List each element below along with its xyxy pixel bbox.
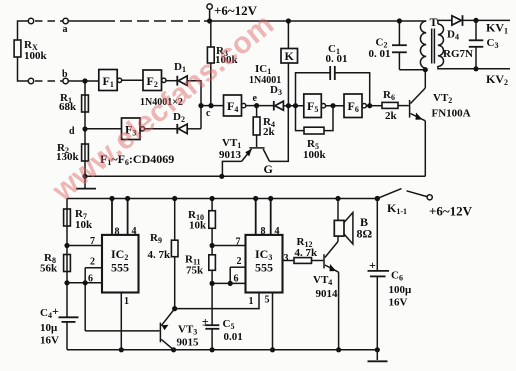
speaker B 8ohm <box>334 196 372 244</box>
diode D2 <box>173 111 187 134</box>
wire: pin 8 of IC2 <box>109 196 119 238</box>
wire: F5 to F6 <box>326 105 344 107</box>
node: rail junction at terminal <box>207 18 212 23</box>
svg-text:F2: F2 <box>147 74 158 89</box>
svg-text:5: 5 <box>265 295 270 306</box>
svg-text:3: 3 <box>284 253 289 264</box>
svg-text:4: 4 <box>275 226 280 237</box>
wire: pin 7 of IC2 <box>64 236 102 248</box>
relay coil K <box>281 18 298 105</box>
resistor R4 <box>253 106 275 147</box>
svg-text:FN100A: FN100A <box>432 108 471 120</box>
wire: IC3 pin 1 to VT3/R9 node <box>172 293 259 312</box>
timer IC3 555 <box>246 235 283 293</box>
switch K1-1 <box>375 189 473 219</box>
svg-text:±: ± <box>202 315 209 329</box>
diode D3 <box>274 101 284 111</box>
ground (top section, left) <box>76 174 96 189</box>
wire: pin 8 of IC3 <box>253 196 265 237</box>
svg-text:RG7N: RG7N <box>443 48 473 60</box>
wire: pin 2 of IC2 <box>83 257 102 331</box>
node VT1 emitter to G line <box>219 174 224 179</box>
node b junction <box>82 78 87 83</box>
svg-text:0.01: 0.01 <box>224 331 243 343</box>
svg-text:d: d <box>69 126 75 137</box>
svg-text:100μ: 100μ <box>389 284 413 296</box>
capacitor C5 <box>202 315 243 353</box>
svg-text:KV1: KV1 <box>486 21 508 36</box>
wire: D4 to KV1 <box>463 19 511 21</box>
svg-text:F5: F5 <box>307 99 318 114</box>
wire: pin 1 of IC2 to ground rail <box>119 293 129 353</box>
svg-text:4. 7k: 4. 7k <box>148 249 172 261</box>
wire: d to F3 <box>85 128 122 130</box>
wire: bottom +V rail <box>67 198 377 200</box>
resistor R5 feedback loop <box>296 106 334 161</box>
resistor R1 <box>59 92 88 113</box>
svg-text:2k: 2k <box>263 126 276 138</box>
node C2/collector/primary <box>423 67 428 72</box>
wire: pin 7 of IC3 <box>210 228 246 255</box>
transistor VT3 (9015) <box>160 309 199 350</box>
terminal a <box>63 18 69 35</box>
svg-text:6: 6 <box>88 274 93 285</box>
wire: dashed rail from terminal a <box>68 20 204 22</box>
capacitor C6 <box>368 196 413 350</box>
wire: F3 to D2 <box>145 128 178 130</box>
svg-text:R9: R9 <box>150 232 162 245</box>
wire: D3 to F5 <box>283 105 303 107</box>
resistor R12 <box>294 236 323 263</box>
resistor R2 <box>56 142 88 163</box>
wire: F4 to D3 <box>246 105 274 107</box>
svg-text:K1-1: K1-1 <box>387 201 407 216</box>
svg-text:VT3: VT3 <box>178 324 197 337</box>
inverter F6 <box>344 94 366 118</box>
wire: F6 to R6 <box>366 105 382 107</box>
svg-text:K: K <box>285 49 295 63</box>
label IC1 1N4001 (D3) <box>249 63 282 97</box>
inverter F5 <box>304 94 326 118</box>
wire: b to F1 <box>68 80 99 82</box>
svg-text:9013: 9013 <box>219 149 242 161</box>
svg-text:C3: C3 <box>487 37 499 50</box>
wire: pin 3 of IC3 to R12 <box>283 253 295 264</box>
capacitor C4 <box>40 304 79 350</box>
resistor RX <box>14 39 47 62</box>
svg-text:555: 555 <box>255 261 273 275</box>
svg-text:4. 7k: 4. 7k <box>295 247 319 259</box>
wire: bottom ground rail <box>67 349 377 351</box>
capacitor C3 <box>469 20 499 68</box>
wire: Rx bottom lead <box>18 57 29 81</box>
svg-text:KV2: KV2 <box>486 72 508 87</box>
svg-text:2k: 2k <box>385 110 398 122</box>
svg-text:+6~12V: +6~12V <box>429 204 473 219</box>
terminal (bottom left) <box>28 78 33 83</box>
wire: dashes between bottom terminals <box>35 80 63 82</box>
inverter F4 <box>224 95 246 116</box>
svg-text:VT4: VT4 <box>313 274 332 287</box>
svg-text:F6: F6 <box>348 99 359 114</box>
wire: KV2 line <box>473 66 510 87</box>
svg-text:9014: 9014 <box>316 288 339 300</box>
svg-text:G: G <box>264 162 273 176</box>
inverter F2 <box>143 70 166 91</box>
svg-text:56k: 56k <box>40 263 58 275</box>
svg-text:e: e <box>253 93 258 104</box>
resistor R11 <box>185 254 215 326</box>
wire: pin 4 of IC2 <box>125 196 137 237</box>
svg-text:1: 1 <box>124 296 129 307</box>
svg-text:6: 6 <box>234 274 239 285</box>
resistor R10 <box>188 196 215 232</box>
wire: F2 to D1 <box>166 80 177 82</box>
svg-text:2: 2 <box>90 257 95 268</box>
terminal (top left) <box>28 18 33 23</box>
capacitor C2 <box>369 18 427 69</box>
terminal b <box>62 69 68 84</box>
svg-text:8: 8 <box>261 226 266 237</box>
svg-text:10k: 10k <box>189 220 207 232</box>
inverter F1 <box>99 70 122 91</box>
svg-text:7: 7 <box>90 236 95 247</box>
svg-text:a: a <box>63 24 68 35</box>
svg-text:C4+: C4+ <box>40 304 59 320</box>
wire: pin 4 of IC3 <box>268 196 279 237</box>
wire: pin 2 of IC3 <box>228 256 246 286</box>
svg-text:F1: F1 <box>103 74 114 89</box>
svg-text:C5: C5 <box>223 318 235 331</box>
resistor R8 <box>40 252 70 275</box>
wire: ground/common line G <box>85 175 425 177</box>
resistor R6 <box>382 89 409 122</box>
svg-text:10k: 10k <box>75 219 93 231</box>
svg-text:VT2: VT2 <box>433 92 452 105</box>
diode D4 <box>447 15 463 41</box>
svg-text:0. 01: 0. 01 <box>326 53 348 65</box>
svg-text:75k: 75k <box>186 265 204 277</box>
wire: Rx top lead <box>18 21 29 40</box>
resistor R9 <box>148 196 179 309</box>
resistor R7 <box>64 208 93 231</box>
svg-text:+: + <box>369 258 376 272</box>
svg-text:C6: C6 <box>391 270 403 283</box>
svg-text:T: T <box>430 15 438 29</box>
node e <box>253 93 260 108</box>
svg-text:2: 2 <box>237 256 242 267</box>
node c <box>198 103 223 119</box>
transistor VT4 (9014) <box>313 236 339 350</box>
svg-text:100k: 100k <box>303 149 327 161</box>
wire: left rail b-d-gnd <box>84 81 86 176</box>
svg-text:F4: F4 <box>227 99 238 114</box>
svg-text:9015: 9015 <box>177 337 200 349</box>
node d <box>69 126 88 137</box>
svg-text:10μ: 10μ <box>40 322 58 334</box>
wire: D1 to node c riser <box>187 81 201 129</box>
node K/VT1 junction <box>286 103 291 108</box>
wire: pin 6 of IC2 <box>64 274 102 286</box>
transistor VT1 (9013) <box>219 106 288 177</box>
svg-text:8: 8 <box>115 227 120 238</box>
wire: dashes between top terminals <box>35 20 63 22</box>
transformer T <box>420 15 476 69</box>
timer IC2 555 <box>102 235 139 293</box>
resistor R3 <box>207 21 238 106</box>
wire: IC3 pin 5 <box>265 293 276 353</box>
watermark www.elecfans.com <box>46 7 281 208</box>
svg-text:68k: 68k <box>59 101 77 113</box>
svg-text:c: c <box>206 108 211 119</box>
wire: left rail (bottom section) <box>66 199 68 318</box>
svg-text:16V: 16V <box>40 335 59 347</box>
svg-text:7: 7 <box>236 237 241 248</box>
svg-text:555: 555 <box>111 261 129 275</box>
wire: pin 6 of IC3 <box>212 274 245 285</box>
svg-text:100k: 100k <box>24 50 48 62</box>
wire: D2 to node c riser <box>187 128 201 130</box>
diode D1 <box>174 61 187 86</box>
power terminal +6~12V (top) <box>207 3 258 21</box>
svg-text:D4: D4 <box>447 29 459 42</box>
svg-text:1: 1 <box>249 296 254 307</box>
inverter F3 <box>122 118 145 140</box>
wire: VT3 base <box>85 330 159 332</box>
svg-text:4: 4 <box>132 226 137 237</box>
svg-text:R6: R6 <box>383 89 395 102</box>
node oscillator loop junction <box>293 103 298 108</box>
wire: F1 to F2 <box>122 79 143 81</box>
ground (bottom section) <box>368 347 388 361</box>
svg-text:b: b <box>62 69 68 80</box>
transistor VT2 (FN100A) <box>410 70 471 177</box>
svg-text:16V: 16V <box>389 297 408 309</box>
svg-text:8Ω: 8Ω <box>357 227 373 241</box>
capacitor C1 feedback loop <box>296 43 370 106</box>
wire: +V rail solid <box>204 20 426 22</box>
svg-text:0. 01: 0. 01 <box>369 48 391 60</box>
